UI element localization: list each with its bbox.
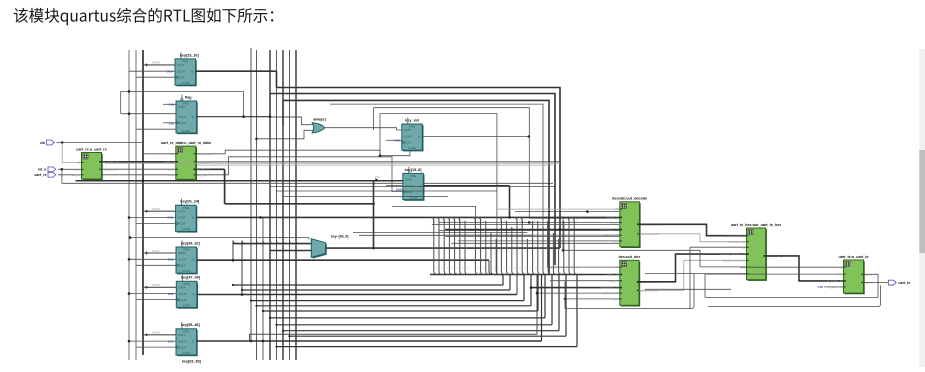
bus row2 taps <box>434 221 437 275</box>
svg-text:ACLR: ACLR <box>178 339 185 343</box>
svg-text:DATA: DATA <box>178 251 185 255</box>
register key[15..8] <box>76 49 925 367</box>
wire hex tx_data to uart_tx <box>766 256 844 281</box>
scrollbar track <box>919 49 925 367</box>
svg-text:16'h38: 16'h38 <box>152 283 160 287</box>
svg-text:rst_n: rst_n <box>74 167 81 171</box>
wire rst_n net <box>58 168 82 170</box>
svg-text:ACLR: ACLR <box>178 258 185 262</box>
bus row1 taps <box>431 217 434 223</box>
svg-text:uart_tx: uart_tx <box>898 281 910 285</box>
svg-text:CLRN: CLRN <box>182 227 190 231</box>
svg-text:rst_n: rst_n <box>168 173 175 177</box>
wire feedback thin rect 4 <box>374 108 530 137</box>
svg-text:SCLR: SCLR <box>178 264 185 268</box>
scrollbar thumb <box>919 150 925 253</box>
svg-text:1'h0: 1'h0 <box>818 285 824 289</box>
register key[39..32] <box>76 49 925 367</box>
wire key[15..8] Q out <box>424 185 510 187</box>
svg-text:clk: clk <box>839 265 843 269</box>
svg-text:1'h0: 1'h0 <box>395 138 401 142</box>
svg-text:decode_result[63..0]: decode_result[63..0] <box>720 252 746 256</box>
svg-text:plaintext_vld: plaintext_vld <box>603 291 619 295</box>
gate always1 <box>312 123 325 133</box>
wire out code_vld <box>196 150 380 156</box>
svg-text:16'h45: 16'h45 <box>152 61 160 65</box>
svg-text:1'h0: 1'h0 <box>169 103 175 107</box>
svg-text:key[63..0]: key[63..0] <box>197 167 209 171</box>
svg-text:clk: clk <box>171 152 175 156</box>
title text: 该模块quartus综合的RTL图如下所示： <box>14 8 274 25</box>
input pin clk <box>47 140 55 145</box>
wire always1 output <box>325 128 402 130</box>
svg-text:16'h07: 16'h07 <box>152 331 160 335</box>
svg-text:rst_n: rst_n <box>836 272 843 276</box>
wire out decode_vld <box>196 161 560 163</box>
wire to output pin <box>864 282 889 284</box>
wire hex tx_rdy input <box>645 273 747 275</box>
wire des ciphertext to hex <box>639 254 747 282</box>
svg-text:CLRN: CLRN <box>182 303 190 307</box>
wire uart_tx clk input <box>740 266 844 268</box>
bus row2 <box>430 274 619 276</box>
register key[31..24] <box>76 49 925 367</box>
wire key[15..8] data in <box>76 180 403 182</box>
svg-text:key[63..0]: key[63..0] <box>606 273 618 277</box>
output pin uart_tx <box>888 280 896 285</box>
wire flag feedback loop <box>121 90 244 92</box>
wire rx_data bus out <box>102 161 176 163</box>
wire feedback rect 2 <box>270 94 555 266</box>
wire feedback thin rect 5 <box>380 114 497 275</box>
wire key[39..32] Q out <box>197 259 490 261</box>
module des:uut_des <box>562 49 925 367</box>
wire mid h7 <box>359 234 533 236</box>
svg-text:SCLR: SCLR <box>178 121 185 125</box>
svg-text:DATA: DATA <box>178 209 185 213</box>
svg-text:3'h0: 3'h0 <box>167 69 173 73</box>
wire mid h6 <box>353 231 527 233</box>
module uart_rx:u_uart_rx <box>72 49 925 367</box>
wire decode vld to hex <box>639 234 746 242</box>
svg-text:2'h0: 2'h0 <box>168 339 174 343</box>
wire decode ciphertext to hex <box>639 224 746 235</box>
wire key[31..24] Q out / bus row1 <box>196 216 620 218</box>
wire key[23..16] Q out <box>196 70 277 72</box>
svg-text:clk: clk <box>742 245 746 249</box>
wire uart_rx net <box>58 174 176 176</box>
mux key~[63..0] <box>313 240 327 259</box>
wire uart_tx tx_rdy feedback <box>705 274 878 297</box>
svg-text:key[23..16]: key[23..16] <box>180 53 200 57</box>
svg-text:key[39..32]: key[39..32] <box>181 241 201 245</box>
wire mux output <box>326 247 561 249</box>
svg-text:CLRN: CLRN <box>408 146 416 150</box>
wire out key bus <box>196 168 225 170</box>
svg-text:DATA: DATA <box>178 333 185 337</box>
wire key[55..48] Q out <box>197 340 542 342</box>
svg-text:rst_n: rst_n <box>38 168 47 172</box>
svg-text:key[15..8]: key[15..8] <box>405 168 423 172</box>
wire fan to row2 <box>488 260 490 270</box>
register key[47..40] <box>76 49 925 367</box>
svg-text:key[55..48]: key[55..48] <box>181 323 201 327</box>
wires into decode <box>497 208 620 210</box>
svg-text:uart_tx_hex:uut_uart_tx_hex: uart_tx_hex:uut_uart_tx_hex <box>731 223 782 227</box>
svg-text:key_vld: key_vld <box>609 221 619 225</box>
svg-text:flag: flag <box>185 95 192 99</box>
svg-text:ACLR: ACLR <box>178 216 185 220</box>
svg-text:SCLR: SCLR <box>405 190 412 194</box>
wire mux input bus <box>233 243 311 245</box>
module decode:uut_decode <box>530 49 925 367</box>
wire key_vld Q out <box>422 136 529 138</box>
svg-text:SCLR: SCLR <box>177 75 184 79</box>
svg-text:key_vld: key_vld <box>197 173 207 177</box>
svg-text:rst_n: rst_n <box>612 297 619 301</box>
svg-text:plaintext[63..0]: plaintext[63..0] <box>600 228 618 232</box>
svg-text:ACLR: ACLR <box>178 115 185 119</box>
svg-text:rx_vld: rx_vld <box>167 167 175 171</box>
svg-text:decode:uut_decode: decode:uut_decode <box>612 197 647 201</box>
wire mid h4 <box>277 190 498 192</box>
svg-text:plaintext[63..0]: plaintext[63..0] <box>600 286 618 290</box>
wire key_vld inputs <box>386 139 402 141</box>
svg-text:SCLR: SCLR <box>404 141 411 145</box>
svg-text:SCLR: SCLR <box>179 298 186 302</box>
svg-text:decode_vld: decode_vld <box>197 152 212 156</box>
svg-text:SCLR: SCLR <box>178 345 185 349</box>
svg-text:key[63..56]: key[63..56] <box>182 360 202 364</box>
svg-text:clk: clk <box>615 207 619 211</box>
wire thin rect 543 <box>330 104 543 270</box>
wire rst_n distribution <box>61 169 63 183</box>
svg-text:key[47..40]: key[47..40] <box>181 276 201 280</box>
svg-text:9'h4: 9'h4 <box>375 175 380 179</box>
svg-text:decode_result_vld: decode_result_vld <box>723 258 746 262</box>
svg-text:CLRN: CLRN <box>182 351 190 355</box>
svg-text:uart_rx_data:u_uart_rx_data: uart_rx_data:u_uart_rx_data <box>161 141 212 145</box>
wires into des <box>547 221 549 267</box>
svg-text:16'h11: 16'h11 <box>152 249 160 253</box>
wires bottom fan <box>233 284 503 286</box>
wire mid h5 <box>283 196 448 198</box>
svg-text:16'h29: 16'h29 <box>152 207 160 211</box>
wire outer feedback box <box>708 286 881 307</box>
wire clk to uart_rx_data <box>143 153 176 155</box>
wire clk loop down <box>392 206 475 221</box>
svg-text:DATA: DATA <box>177 63 184 67</box>
wire feedback rect 3 <box>283 100 549 274</box>
wire mux input 2 <box>270 250 311 252</box>
svg-text:ciphertext[63..0]: ciphertext[63..0] <box>725 234 745 238</box>
svg-text:ACLR: ACLR <box>177 69 184 73</box>
wires row1 to decode <box>432 223 619 225</box>
register flag <box>76 49 925 367</box>
wire always1 input 1 from flag <box>270 117 313 125</box>
wire mid h3 <box>270 186 556 188</box>
svg-text:tx_data_vld: tx_data_vld <box>828 285 843 289</box>
svg-text:clk: clk <box>40 141 45 145</box>
wire rx_vld <box>102 168 176 170</box>
wire byte verticals to mux <box>233 240 236 246</box>
wire bus verticals mid <box>256 50 258 360</box>
wire hex feedback low <box>645 288 731 290</box>
svg-text:rst_n: rst_n <box>612 239 619 243</box>
register key[23..16] <box>76 49 925 367</box>
wire gray long line <box>105 162 560 164</box>
svg-text:ciphertext_vld: ciphertext_vld <box>728 240 746 244</box>
svg-text:CLRN: CLRN <box>181 81 189 85</box>
svg-text:CLRN: CLRN <box>409 195 417 199</box>
svg-text:key_vld: key_vld <box>609 279 619 283</box>
wire feedback rect 1 <box>277 88 561 221</box>
svg-text:plaintext_vld: plaintext_vld <box>603 233 619 237</box>
svg-text:ACLR: ACLR <box>404 135 411 139</box>
svg-text:2'h0: 2'h0 <box>168 292 174 296</box>
svg-text:2'h0: 2'h0 <box>168 258 174 262</box>
svg-text:key[63..0]: key[63..0] <box>606 216 618 220</box>
svg-text:des:uut_des: des:uut_des <box>619 255 641 259</box>
wire hex rst input <box>563 250 747 267</box>
module uart_tx_hex:uut_uart_tx_hex <box>705 49 925 367</box>
register key_vld <box>76 49 925 367</box>
wire low extra <box>250 333 538 335</box>
svg-text:1'h0: 1'h0 <box>169 122 175 126</box>
svg-text:uart_tx:u_uart_tx: uart_tx:u_uart_tx <box>838 255 869 259</box>
svg-text:uart_rx:u_uart_rx: uart_rx:u_uart_rx <box>76 147 107 151</box>
register key[55..48] <box>76 49 925 367</box>
svg-text:clk: clk <box>615 265 619 269</box>
svg-text:ACLR: ACLR <box>405 184 412 188</box>
svg-text:ACLR: ACLR <box>179 292 186 296</box>
input pin uart_rx <box>48 172 56 177</box>
svg-text:uart_rx: uart_rx <box>72 173 81 177</box>
wire key[15..8] aclr <box>386 185 403 187</box>
input pin rst_n <box>48 167 56 172</box>
wire clk net <box>57 142 144 144</box>
svg-text:key[31..24]: key[31..24] <box>180 200 200 204</box>
wire out seq_vld <box>196 157 403 192</box>
wire bus verticals left <box>128 50 130 360</box>
svg-text:DATA: DATA <box>405 178 412 182</box>
svg-text:tx_rdy: tx_rdy <box>865 272 873 276</box>
svg-text:CLRN: CLRN <box>182 269 190 273</box>
wire flag Q out <box>197 116 271 118</box>
module uart_rx_data:u_uart_rx_data <box>76 49 925 367</box>
wire des vld to hex <box>639 260 747 290</box>
svg-text:tx_data[7..0]: tx_data[7..0] <box>827 279 843 283</box>
flag inversion circle <box>181 99 183 101</box>
wire thin to decode clk <box>515 211 620 213</box>
wire key[47..40] Q out <box>197 294 517 296</box>
svg-text:key~[63..0]: key~[63..0] <box>331 234 348 238</box>
svg-text:SCLR: SCLR <box>178 222 185 226</box>
wire always1 input 2 <box>257 130 314 139</box>
wire mux select <box>130 237 309 239</box>
svg-text:rx_data_vld: rx_data_vld <box>103 167 118 171</box>
svg-text:always1: always1 <box>313 118 326 122</box>
wire key_vld clk drop <box>380 150 410 156</box>
wire uart_tx rst input <box>705 273 844 275</box>
svg-text:clk: clk <box>77 161 81 165</box>
svg-text:uart_rx: uart_rx <box>34 173 46 177</box>
svg-text:CLRN: CLRN <box>182 129 190 133</box>
wire hex clk input <box>690 246 747 248</box>
svg-text:DATA: DATA <box>404 128 411 132</box>
module uart_tx:u_uart_tx <box>827 49 925 367</box>
svg-text:2'h0: 2'h0 <box>168 216 174 220</box>
svg-text:DATA: DATA <box>179 286 186 290</box>
svg-text:DATA: DATA <box>178 105 185 109</box>
